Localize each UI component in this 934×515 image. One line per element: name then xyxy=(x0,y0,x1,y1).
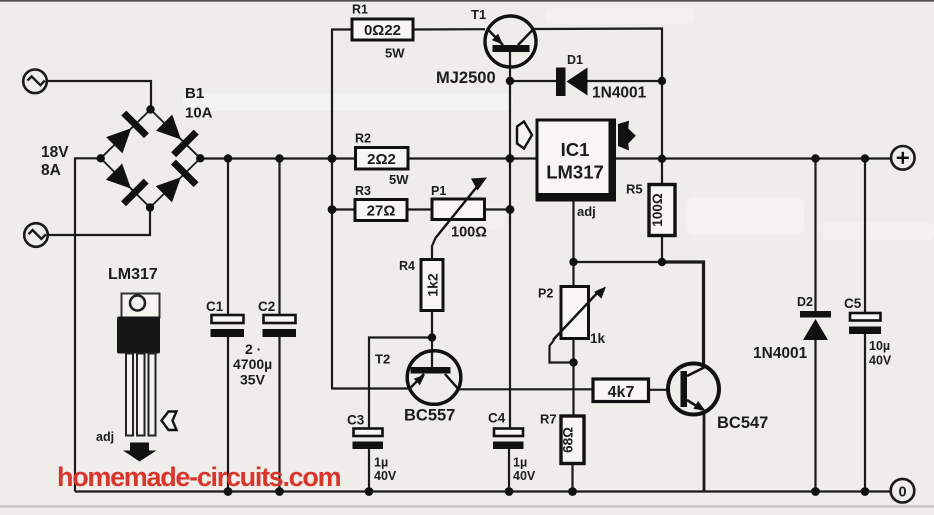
wire bridge left corner to ground rail xyxy=(75,158,101,491)
svg-text:C4: C4 xyxy=(488,411,506,426)
node C3 ground xyxy=(365,487,374,496)
node bridge top xyxy=(146,105,154,113)
label 18V 8A xyxy=(41,144,69,179)
node adj xyxy=(569,258,577,266)
potentiometer P1 xyxy=(431,178,487,241)
node C1 rail xyxy=(224,154,232,162)
svg-text:R1: R1 xyxy=(352,3,368,17)
wire T2 collector to 4k7 xyxy=(458,388,593,390)
svg-text:10A: 10A xyxy=(185,105,213,122)
terminal 0 output xyxy=(891,479,915,503)
LM317 package picture xyxy=(96,266,177,462)
svg-text:IC1: IC1 xyxy=(561,139,590,160)
node C1 ground xyxy=(224,487,233,496)
svg-text:2 ·: 2 · xyxy=(245,341,261,357)
svg-text:adj: adj xyxy=(577,204,596,219)
svg-text:BC547: BC547 xyxy=(717,414,768,432)
wire R5 bottom xyxy=(661,236,663,263)
capacitor C4 xyxy=(488,411,536,484)
svg-text:R4: R4 xyxy=(399,259,415,273)
svg-text:40V: 40V xyxy=(869,354,892,368)
resistor R4 xyxy=(399,259,443,311)
svg-text:18V: 18V xyxy=(41,144,69,161)
wire C5 top xyxy=(864,159,866,314)
AC source bottom xyxy=(24,223,48,247)
node D2 ground xyxy=(811,487,820,496)
label C1 C2 value xyxy=(233,341,272,388)
wire T1 base / C4 vertical xyxy=(509,51,511,429)
node P1 right xyxy=(506,205,515,214)
svg-text:LM317: LM317 xyxy=(108,266,158,283)
svg-text:C2: C2 xyxy=(258,299,275,314)
wire IC1 output rail xyxy=(615,157,892,159)
capacitor C2 xyxy=(258,159,296,492)
svg-text:T1: T1 xyxy=(471,7,486,22)
svg-text:homemade-circuits.com: homemade-circuits.com xyxy=(57,462,341,492)
node C4 ground xyxy=(505,487,514,496)
svg-text:MJ2500: MJ2500 xyxy=(436,69,496,87)
node left bus rail xyxy=(328,154,337,163)
svg-text:100Ω: 100Ω xyxy=(650,193,665,227)
svg-text:0Ω22: 0Ω22 xyxy=(364,22,401,39)
wire P1 wiper to R4 xyxy=(432,238,436,260)
svg-text:P2: P2 xyxy=(538,287,553,301)
transistor T2 BC557 xyxy=(375,351,461,425)
node bridge right xyxy=(196,154,204,162)
wire BC547 emitter to ground xyxy=(703,413,706,492)
svg-text:C5: C5 xyxy=(844,296,862,311)
arrow input hollow xyxy=(517,122,532,149)
wire P2 wiper tie xyxy=(550,340,574,363)
node D1 right xyxy=(658,77,666,85)
svg-text:2Ω2: 2Ω2 xyxy=(367,151,396,168)
wire P2 bottom to R7 xyxy=(572,339,574,417)
svg-text:40V: 40V xyxy=(513,469,536,483)
svg-text:P1: P1 xyxy=(431,184,446,198)
svg-text:R3: R3 xyxy=(355,184,371,198)
transistor T1 MJ2500 xyxy=(436,7,536,87)
AC source top xyxy=(23,70,47,94)
svg-text:27Ω: 27Ω xyxy=(367,203,396,220)
bridge diode lower-right (bottom to right) xyxy=(153,160,199,206)
wire IC1 adj pin xyxy=(572,200,574,263)
potentiometer P2 xyxy=(538,287,606,347)
capacitor C3 xyxy=(347,413,397,484)
node IC1 input xyxy=(506,154,515,163)
svg-text:5W: 5W xyxy=(385,46,405,61)
wire R3 to P1 xyxy=(407,208,432,210)
resistor R1 xyxy=(352,3,413,61)
svg-text:1µ: 1µ xyxy=(374,456,388,470)
node C5 ground xyxy=(861,487,870,496)
arrow output solid xyxy=(618,121,636,151)
node IC1 output xyxy=(658,155,666,163)
arrow down black xyxy=(130,443,149,451)
wire adj node to R5 node xyxy=(574,261,663,263)
terminal + output xyxy=(891,146,915,170)
wire D2 top xyxy=(814,159,816,312)
svg-text:D2: D2 xyxy=(797,295,813,309)
node left bus R3 xyxy=(328,205,337,214)
node D2 rail xyxy=(811,154,819,162)
node bridge bottom xyxy=(146,203,154,211)
svg-text:R2: R2 xyxy=(355,132,371,146)
wire raw rail left of R2 xyxy=(200,157,355,159)
wire R4 to T2 base xyxy=(431,311,433,369)
wire C4 to ground xyxy=(508,449,510,492)
wire C3 to ground xyxy=(368,448,370,492)
wire D1 right xyxy=(587,80,662,82)
bridge diode upper-left (left to top) xyxy=(103,111,149,157)
svg-text:1N4001: 1N4001 xyxy=(592,85,647,102)
wire R3 left xyxy=(332,208,355,210)
wire AC1 to bridge top xyxy=(47,81,151,110)
svg-text:1k2: 1k2 xyxy=(425,273,441,297)
resistor R2 xyxy=(355,132,409,188)
bridge rectifier B1 xyxy=(97,85,213,212)
svg-text:B1: B1 xyxy=(185,85,204,102)
svg-text:1N4001: 1N4001 xyxy=(753,345,808,362)
node R7 ground xyxy=(568,487,577,496)
op-amp IC1 LM317 regulator box xyxy=(537,120,616,220)
wire T1 collector to right vertical xyxy=(534,29,662,159)
wire R5 top xyxy=(661,159,663,185)
capacitor C1 xyxy=(206,159,244,492)
svg-text:D1: D1 xyxy=(567,53,583,67)
resistor R3 xyxy=(355,184,407,221)
svg-text:100Ω: 100Ω xyxy=(451,225,487,241)
wire R5 node to BC547 collector (thick) xyxy=(662,262,704,366)
bridge diode upper-right (top to right) xyxy=(153,111,199,157)
wire left vertical bus xyxy=(332,30,408,389)
svg-text:5W: 5W xyxy=(389,172,409,187)
wire D2 bottom xyxy=(814,340,816,492)
svg-text:4700µ: 4700µ xyxy=(233,356,272,372)
wire P2 top xyxy=(572,262,574,287)
svg-text:BC557: BC557 xyxy=(404,407,455,425)
wire ground rail xyxy=(75,490,891,492)
node C5 rail xyxy=(861,154,869,162)
wire C5 bottom xyxy=(864,334,866,492)
node bridge left xyxy=(97,154,105,162)
wire 4k7 to BC547 base xyxy=(649,389,670,391)
svg-text:C1: C1 xyxy=(206,299,224,314)
node C2 rail xyxy=(275,154,283,162)
svg-text:R7: R7 xyxy=(540,412,557,427)
svg-text:68Ω: 68Ω xyxy=(561,427,576,453)
wire R1 to T1 xyxy=(413,28,485,30)
diode D1 1N4001 xyxy=(556,53,647,102)
wire AC2 to bridge bottom xyxy=(48,208,150,235)
node P2 wiper xyxy=(569,358,577,366)
svg-text:LM317: LM317 xyxy=(546,162,604,183)
svg-text:R5: R5 xyxy=(626,182,643,197)
node R5 bottom xyxy=(658,258,666,266)
svg-text:10µ: 10µ xyxy=(869,339,890,353)
bridge diode lower-left (left to bottom) xyxy=(103,160,149,206)
wire raw rail R2 to IC1 xyxy=(408,157,537,159)
resistor R7 xyxy=(540,412,584,464)
resistor 4k7 xyxy=(593,379,649,402)
capacitor C5 xyxy=(844,296,892,368)
node C2 ground xyxy=(275,487,284,496)
svg-text:adj: adj xyxy=(96,430,114,444)
wire D1 left xyxy=(510,80,556,82)
node T1 base D1 xyxy=(506,77,514,85)
svg-text:0: 0 xyxy=(898,485,906,501)
wire R7 to ground xyxy=(571,464,573,492)
svg-text:1k: 1k xyxy=(590,331,606,346)
svg-text:1µ: 1µ xyxy=(513,456,527,470)
wire P1 right xyxy=(485,208,511,210)
svg-text:8A: 8A xyxy=(41,162,61,179)
resistor R5 xyxy=(626,182,675,236)
svg-text:40V: 40V xyxy=(374,469,397,483)
transistor Q2 BC547 xyxy=(668,364,768,433)
arrow left hollow xyxy=(162,412,177,431)
svg-text:4k7: 4k7 xyxy=(608,384,635,401)
node T2 base xyxy=(428,333,436,341)
wire T2 base node to C3 xyxy=(369,338,432,429)
svg-text:T2: T2 xyxy=(375,352,390,367)
svg-text:C3: C3 xyxy=(347,413,365,428)
diode D2 1N4001 xyxy=(753,295,831,362)
svg-text:35V: 35V xyxy=(240,372,266,388)
